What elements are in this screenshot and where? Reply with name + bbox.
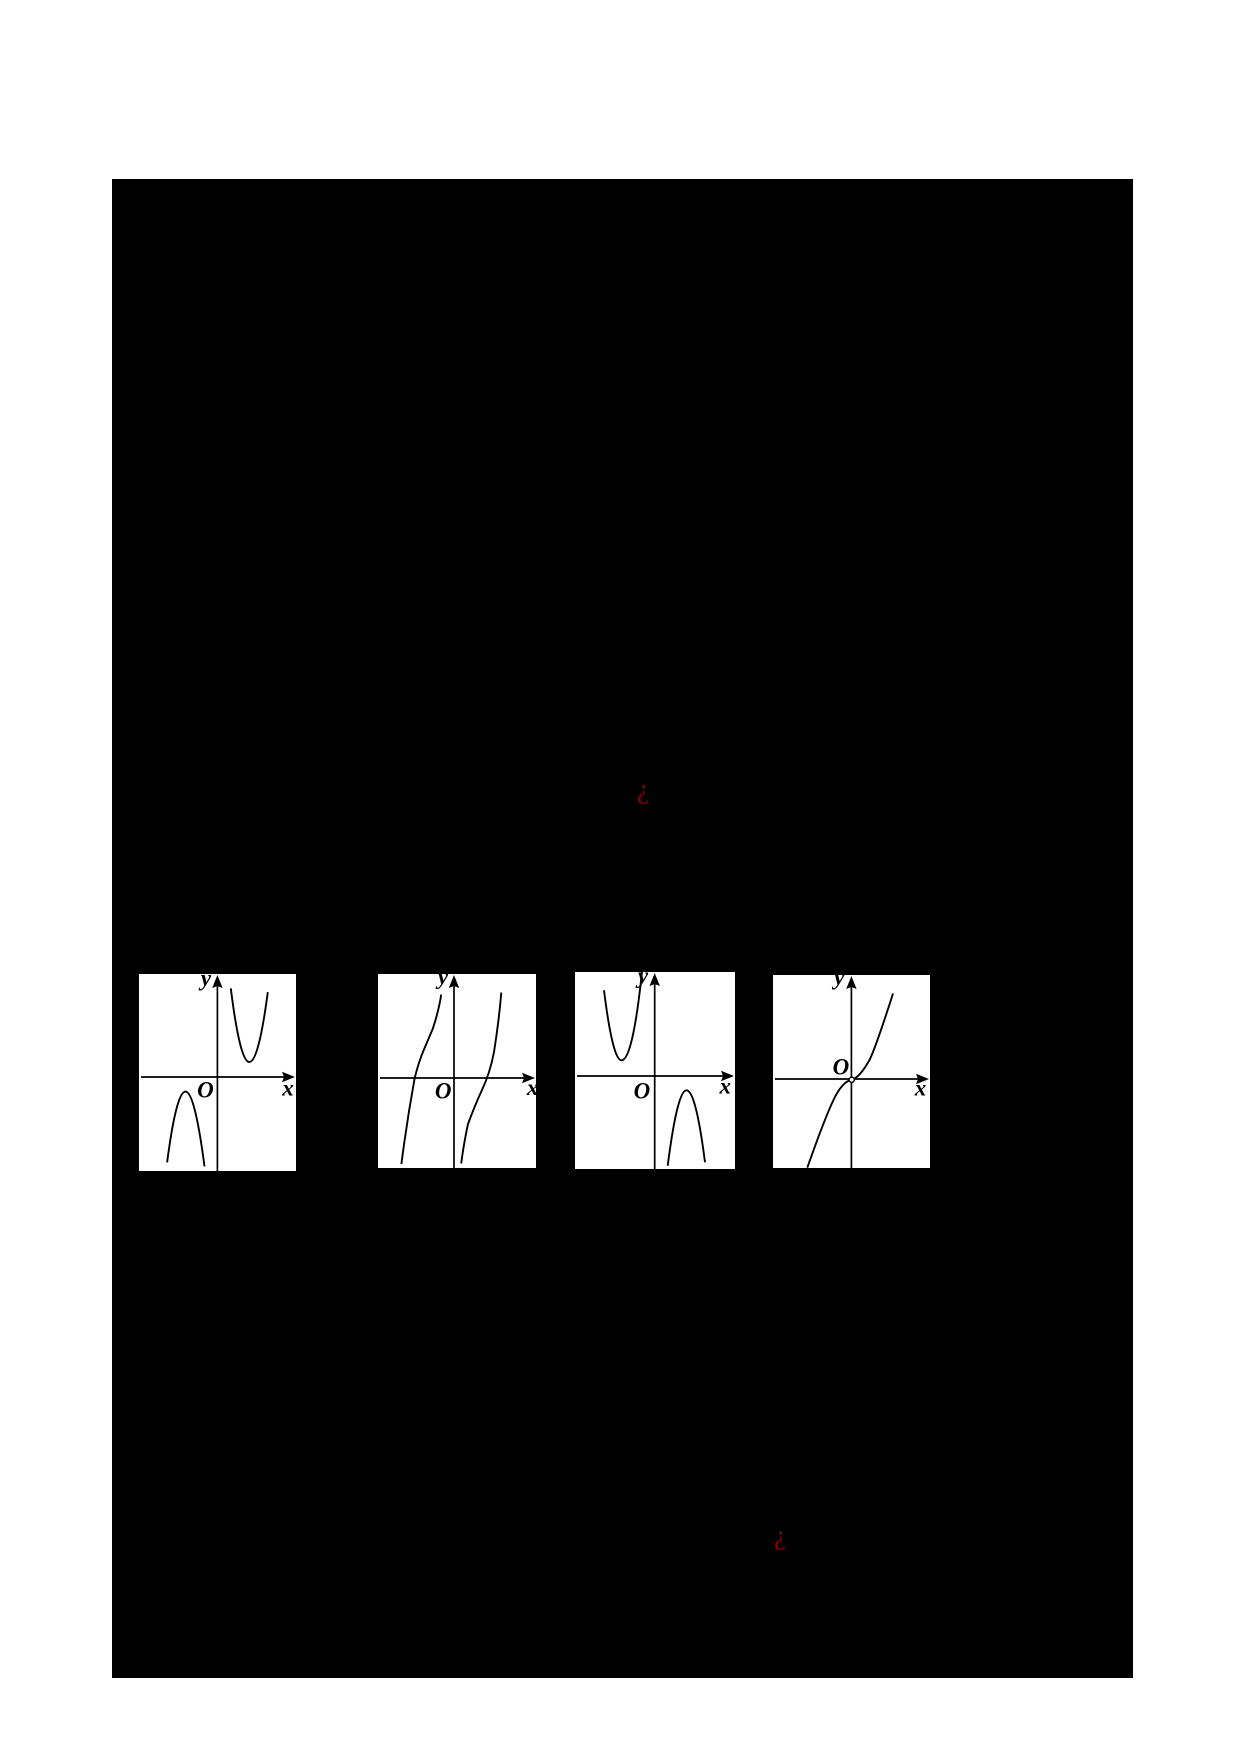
svg-text:O: O <box>634 1079 651 1104</box>
svg-text:y: y <box>635 972 649 988</box>
svg-text:O: O <box>197 1078 214 1103</box>
svg-text:y: y <box>198 974 212 990</box>
svg-text:O: O <box>435 1079 452 1104</box>
svg-text:O: O <box>833 1055 850 1080</box>
svg-text:x: x <box>281 1075 294 1100</box>
svg-text:y: y <box>831 975 845 990</box>
svg-text:x: x <box>914 1076 927 1101</box>
svg-text:y: y <box>435 974 449 989</box>
svg-text:x: x <box>718 1074 731 1099</box>
svg-text:x: x <box>526 1075 536 1100</box>
